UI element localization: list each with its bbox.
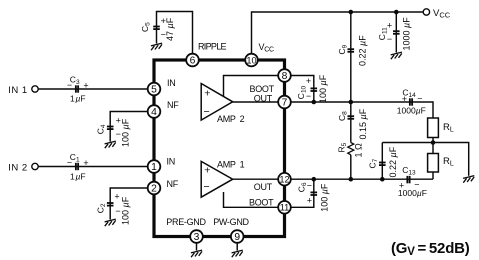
svg-text:VCC: VCC [259, 42, 274, 54]
svg-text:RL: RL [443, 156, 454, 168]
svg-text:C10: C10 [296, 85, 308, 99]
svg-text:−: − [67, 158, 72, 168]
svg-text:10: 10 [246, 55, 256, 65]
svg-text:PRE-GND: PRE-GND [166, 217, 206, 227]
svg-text:C4: C4 [96, 124, 108, 134]
svg-text:RIPPLE: RIPPLE [198, 42, 227, 52]
svg-text:1: 1 [151, 162, 157, 173]
svg-text:−: − [204, 181, 210, 193]
svg-text:12: 12 [279, 175, 289, 185]
svg-text:RL: RL [443, 122, 454, 134]
svg-text:5: 5 [151, 85, 157, 96]
svg-text:C5: C5 [140, 22, 152, 32]
svg-text:+: + [402, 94, 407, 104]
svg-text:11: 11 [280, 203, 290, 213]
svg-text:0.15 µF: 0.15 µF [358, 108, 368, 139]
svg-text:C2: C2 [96, 203, 108, 213]
svg-text:1000µF: 1000µF [397, 106, 426, 116]
svg-text:C9: C9 [337, 44, 349, 54]
svg-text:IN: IN [167, 157, 175, 167]
svg-text:R5: R5 [337, 142, 349, 152]
svg-text:+: + [204, 87, 210, 99]
svg-text:(GV = 52dB): (GV = 52dB) [391, 240, 470, 258]
svg-text:8: 8 [282, 71, 288, 82]
svg-text:7: 7 [282, 98, 288, 109]
svg-text:−: − [204, 106, 210, 118]
svg-text:0.22 µF: 0.22 µF [358, 35, 368, 66]
svg-text:OUT: OUT [254, 93, 273, 103]
svg-text:VCC: VCC [433, 8, 451, 20]
svg-text:C11: C11 [377, 27, 389, 40]
svg-text:IN: IN [167, 78, 175, 88]
svg-text:NF: NF [167, 100, 179, 110]
svg-text:47 µF: 47 µF [165, 17, 175, 41]
svg-text:1 µF: 1 µF [70, 94, 86, 104]
svg-text:+: + [204, 165, 210, 177]
svg-text:AMP2: AMP2 [217, 114, 245, 124]
svg-text:1 µF: 1 µF [70, 172, 86, 182]
svg-text:NF: NF [167, 179, 179, 189]
svg-text:AMP1: AMP1 [217, 160, 245, 170]
svg-text:100 µF: 100 µF [120, 118, 130, 147]
svg-text:PW-GND: PW-GND [213, 217, 249, 227]
svg-text:−: − [414, 180, 419, 190]
svg-text:100 µF: 100 µF [120, 196, 130, 225]
svg-text:IN 1: IN 1 [8, 85, 27, 96]
svg-text:100 µF: 100 µF [319, 183, 329, 212]
svg-text:+: + [399, 180, 404, 190]
svg-text:C13: C13 [402, 165, 416, 177]
svg-text:C6: C6 [296, 182, 308, 192]
svg-text:4: 4 [151, 107, 157, 118]
svg-text:+: + [306, 76, 311, 86]
svg-text:+: + [307, 196, 312, 206]
svg-text:1 Ω: 1 Ω [354, 143, 364, 158]
svg-text:OUT: OUT [254, 182, 273, 192]
svg-text:0.22 µF: 0.22 µF [388, 146, 398, 177]
svg-text:+: + [114, 191, 119, 201]
svg-text:IN 2: IN 2 [8, 162, 27, 173]
svg-text:1000 µF: 1000 µF [402, 17, 412, 51]
svg-text:100 µF: 100 µF [318, 74, 328, 103]
svg-text:6: 6 [190, 56, 196, 67]
svg-text:2: 2 [151, 184, 157, 195]
svg-text:+: + [83, 158, 88, 168]
svg-text:−: − [387, 34, 392, 44]
svg-text:−: − [417, 93, 422, 103]
svg-text:BOOT: BOOT [249, 198, 274, 208]
svg-text:+: + [83, 80, 88, 90]
svg-text:9: 9 [234, 232, 240, 243]
svg-text:3: 3 [194, 232, 200, 243]
svg-text:−: − [67, 80, 72, 90]
svg-text:C8: C8 [337, 111, 349, 121]
svg-text:C7: C7 [367, 158, 379, 168]
